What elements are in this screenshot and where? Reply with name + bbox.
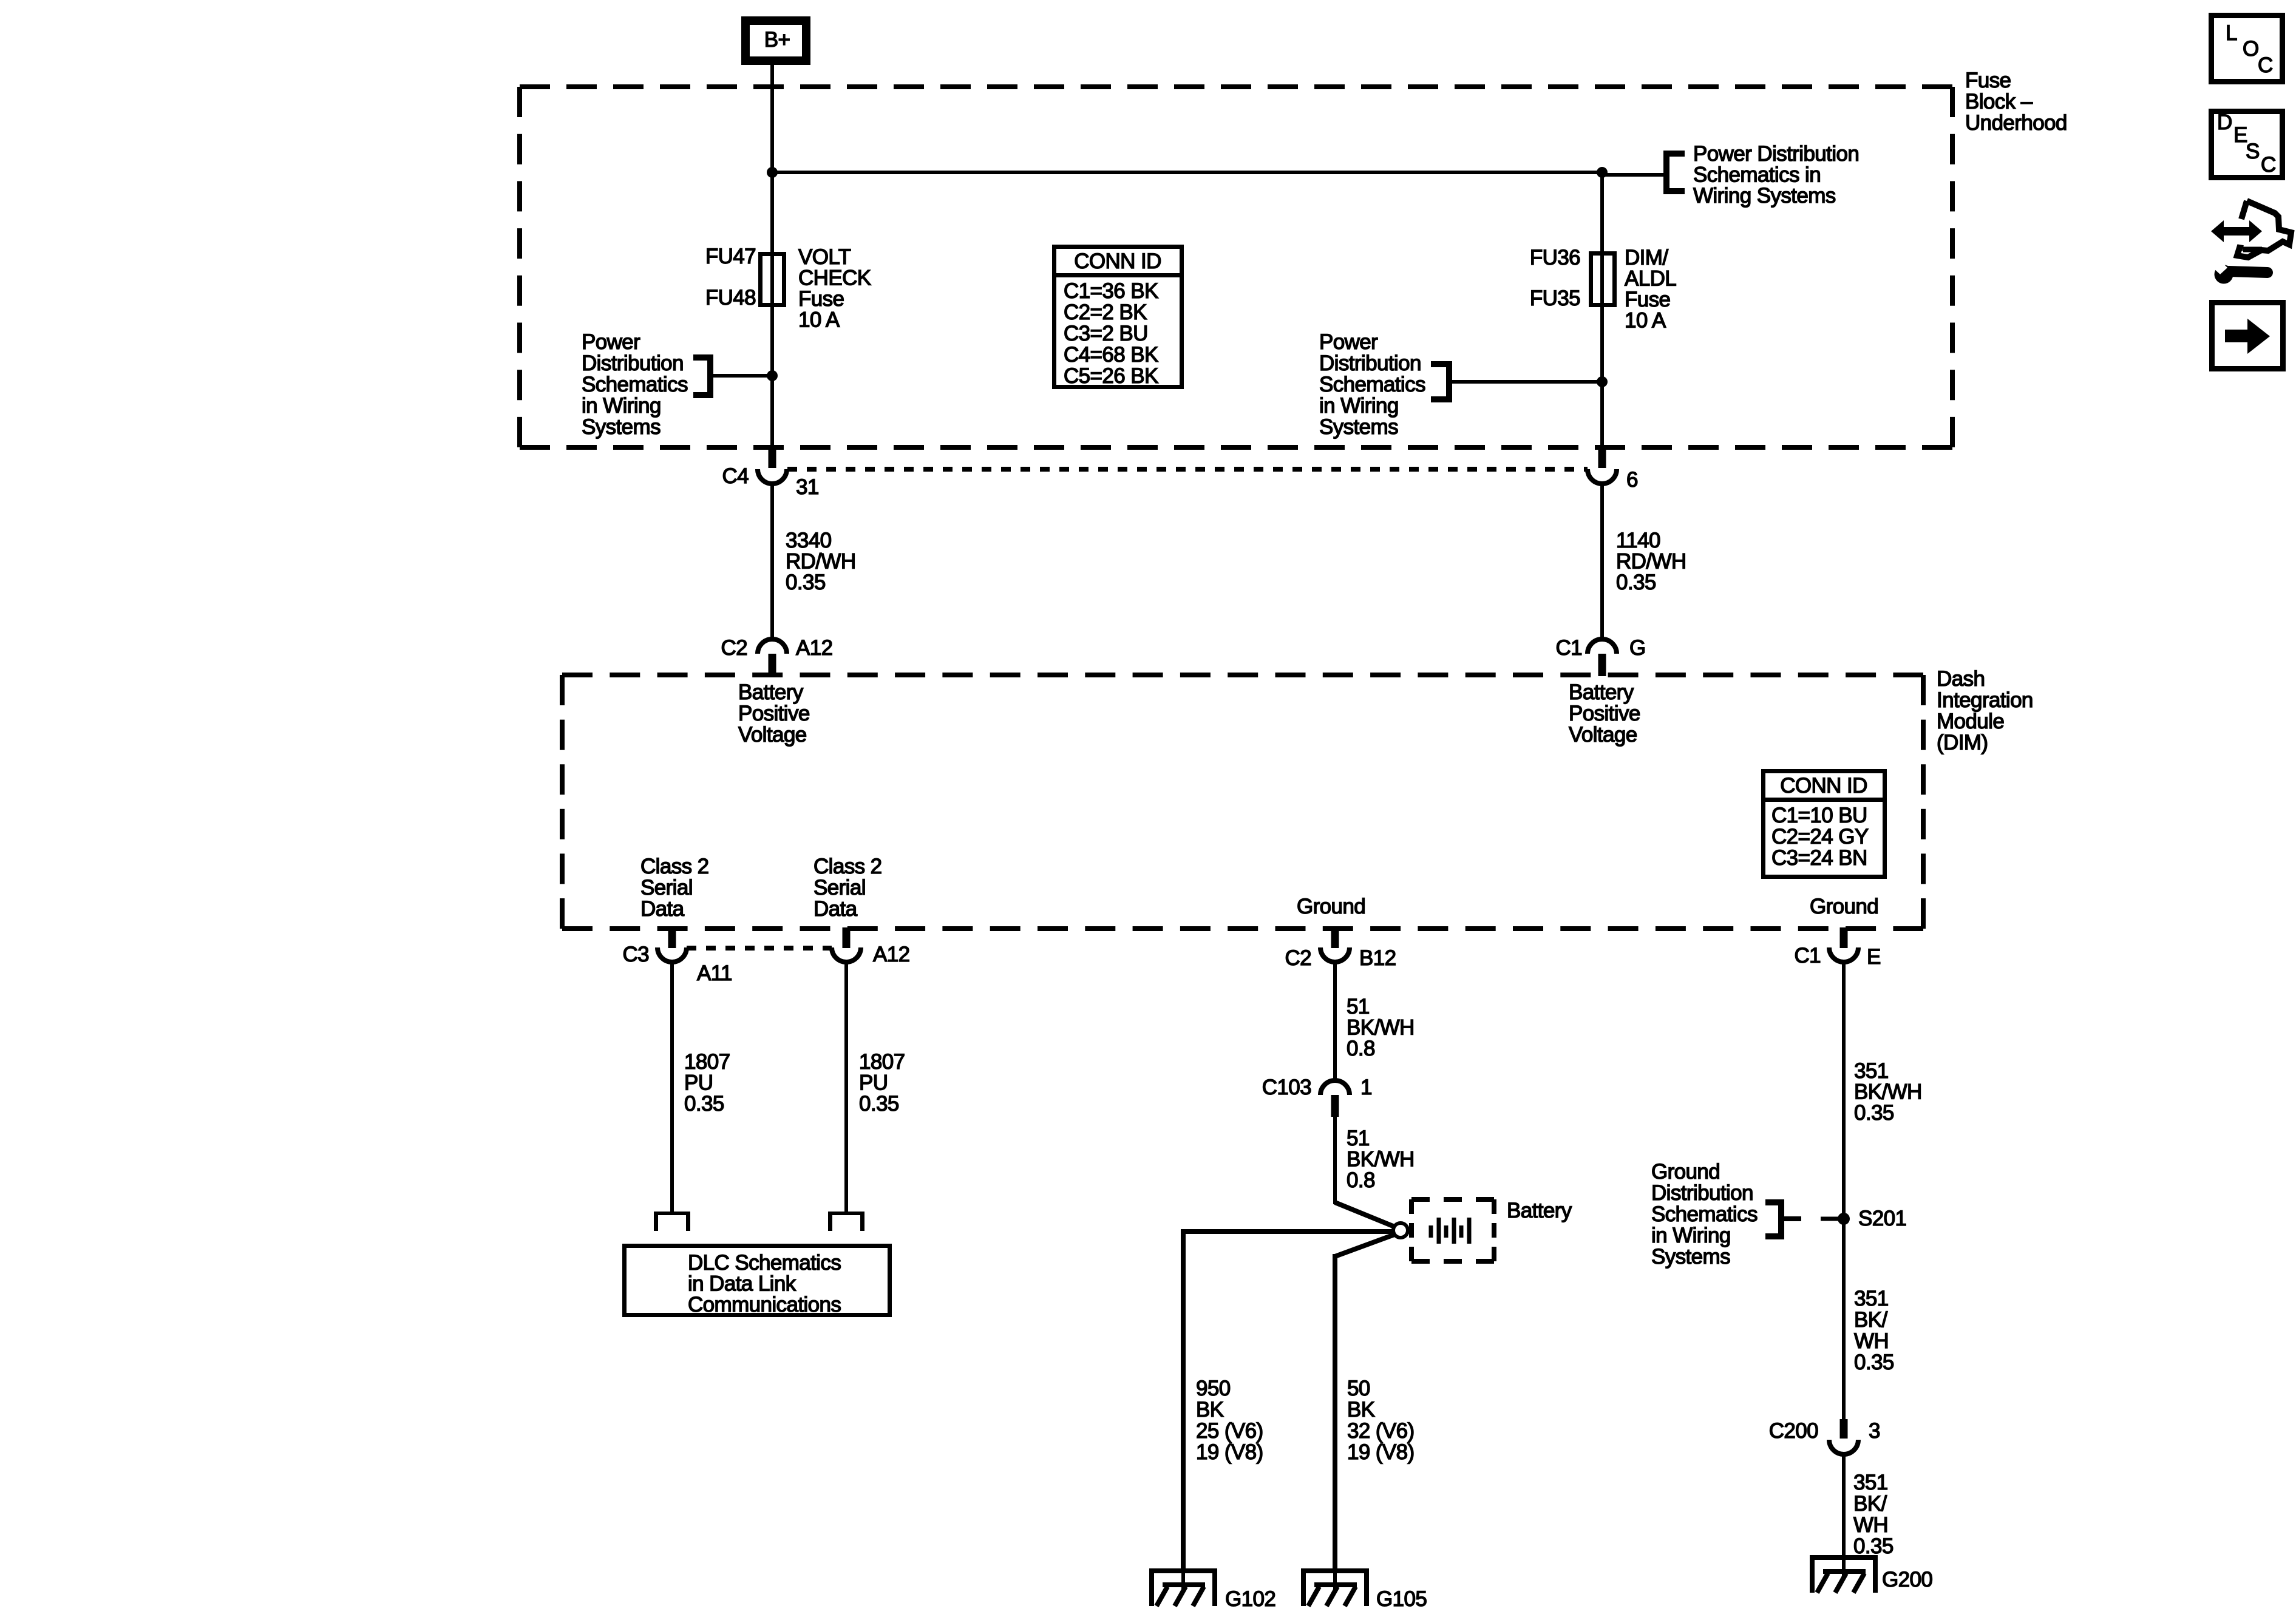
svg-text:0.35: 0.35	[1854, 1351, 1894, 1374]
svg-text:Battery: Battery	[1507, 1199, 1572, 1222]
svg-text:C3: C3	[622, 943, 649, 966]
svg-text:PU: PU	[684, 1071, 713, 1095]
svg-text:10 A: 10 A	[798, 308, 840, 332]
svg-text:1807: 1807	[859, 1050, 905, 1074]
svg-text:FU36: FU36	[1530, 246, 1580, 269]
svg-text:in Wiring: in Wiring	[582, 394, 661, 418]
svg-text:C1: C1	[1555, 636, 1582, 660]
svg-text:Systems: Systems	[1651, 1245, 1730, 1269]
svg-text:51: 51	[1347, 995, 1370, 1018]
svg-text:BK/: BK/	[1853, 1492, 1887, 1516]
svg-text:C: C	[2261, 153, 2276, 177]
svg-text:Power: Power	[582, 330, 640, 354]
svg-text:Power: Power	[1319, 330, 1378, 354]
svg-text:Ground: Ground	[1810, 895, 1878, 918]
svg-text:Integration: Integration	[1937, 688, 2033, 712]
svg-text:C: C	[2258, 53, 2273, 77]
svg-text:CONN ID: CONN ID	[1780, 774, 1867, 798]
svg-text:CONN ID: CONN ID	[1074, 249, 1161, 273]
svg-text:B12: B12	[1359, 946, 1396, 970]
svg-text:D: D	[2217, 110, 2232, 134]
svg-text:A12: A12	[873, 943, 909, 966]
svg-text:Positive: Positive	[1569, 702, 1640, 725]
svg-text:RD/WH: RD/WH	[1616, 550, 1686, 574]
svg-text:1: 1	[1360, 1076, 1372, 1099]
svg-text:3340: 3340	[786, 529, 832, 552]
svg-text:Class 2: Class 2	[813, 855, 882, 878]
svg-text:Ground: Ground	[1651, 1160, 1720, 1184]
svg-text:0.35: 0.35	[786, 571, 826, 594]
svg-text:FU47: FU47	[705, 245, 756, 268]
svg-text:C4: C4	[722, 464, 749, 488]
svg-text:Schematics: Schematics	[1651, 1202, 1758, 1226]
svg-text:CHECK: CHECK	[798, 266, 871, 290]
svg-text:C2=2 BK: C2=2 BK	[1064, 300, 1147, 324]
svg-text:BK: BK	[1196, 1398, 1224, 1422]
svg-text:C1=10 BU: C1=10 BU	[1771, 804, 1867, 827]
svg-text:Underhood: Underhood	[1965, 111, 2067, 135]
svg-text:BK: BK	[1347, 1398, 1375, 1422]
svg-text:Block –: Block –	[1965, 90, 2033, 114]
svg-text:C3=24 BN: C3=24 BN	[1771, 846, 1867, 870]
svg-text:Serial: Serial	[640, 876, 693, 900]
svg-text:C4=68 BK: C4=68 BK	[1064, 343, 1158, 367]
svg-text:31: 31	[796, 475, 819, 499]
svg-text:6: 6	[1626, 468, 1638, 492]
svg-text:E: E	[1867, 945, 1881, 969]
svg-text:BK/WH: BK/WH	[1347, 1016, 1415, 1040]
svg-text:32 (V6): 32 (V6)	[1347, 1419, 1415, 1443]
svg-text:25 (V6): 25 (V6)	[1196, 1419, 1263, 1443]
svg-text:50: 50	[1347, 1377, 1370, 1400]
svg-text:RD/WH: RD/WH	[786, 550, 856, 574]
svg-text:A12: A12	[796, 636, 832, 660]
svg-text:in Data Link: in Data Link	[688, 1272, 796, 1296]
svg-text:C1=36 BK: C1=36 BK	[1064, 279, 1158, 303]
svg-text:DIM/: DIM/	[1625, 246, 1668, 269]
svg-text:S201: S201	[1858, 1207, 1906, 1230]
svg-text:(DIM): (DIM)	[1937, 731, 1988, 754]
svg-text:19 (V8): 19 (V8)	[1347, 1440, 1415, 1464]
svg-text:Schematics: Schematics	[1319, 373, 1425, 396]
svg-text:FU48: FU48	[705, 286, 756, 310]
svg-text:G200: G200	[1882, 1568, 1932, 1591]
svg-text:Schematics in: Schematics in	[1693, 163, 1821, 187]
svg-text:G102: G102	[1225, 1587, 1275, 1611]
svg-text:C3=2 BU: C3=2 BU	[1064, 322, 1148, 345]
svg-text:A11: A11	[697, 961, 732, 985]
svg-text:Battery: Battery	[738, 680, 804, 704]
svg-text:Ground: Ground	[1297, 895, 1365, 918]
svg-text:BK/: BK/	[1854, 1308, 1887, 1332]
svg-text:Communications: Communications	[688, 1293, 841, 1317]
svg-text:0.35: 0.35	[1853, 1534, 1894, 1558]
svg-text:BK/WH: BK/WH	[1854, 1080, 1922, 1104]
svg-text:C2: C2	[721, 636, 747, 660]
svg-text:DLC Schematics: DLC Schematics	[688, 1251, 841, 1275]
svg-text:Systems: Systems	[582, 415, 661, 439]
svg-text:C1: C1	[1794, 944, 1821, 968]
svg-text:0.35: 0.35	[1616, 571, 1656, 594]
svg-text:10 A: 10 A	[1625, 309, 1666, 333]
svg-text:Fuse: Fuse	[1965, 69, 2011, 92]
svg-text:C103: C103	[1262, 1076, 1311, 1099]
svg-text:351: 351	[1853, 1471, 1888, 1494]
svg-text:1140: 1140	[1616, 529, 1660, 552]
svg-text:WH: WH	[1853, 1513, 1888, 1537]
svg-text:Battery: Battery	[1569, 680, 1634, 704]
svg-text:Distribution: Distribution	[582, 351, 684, 375]
svg-text:Dash: Dash	[1937, 667, 1985, 691]
svg-text:0.35: 0.35	[684, 1092, 724, 1116]
svg-text:0.35: 0.35	[859, 1092, 899, 1116]
svg-text:Power Distribution: Power Distribution	[1693, 142, 1859, 166]
svg-text:Wiring Systems: Wiring Systems	[1693, 184, 1836, 208]
svg-text:Distribution: Distribution	[1319, 351, 1421, 375]
svg-text:FU35: FU35	[1530, 286, 1580, 310]
svg-text:Module: Module	[1937, 710, 2004, 733]
svg-text:C5=26 BK: C5=26 BK	[1064, 364, 1158, 388]
svg-text:3: 3	[1869, 1419, 1880, 1443]
svg-text:VOLT: VOLT	[798, 245, 851, 269]
svg-text:B+: B+	[764, 28, 790, 52]
svg-text:in Wiring: in Wiring	[1651, 1224, 1731, 1247]
svg-text:Serial: Serial	[813, 876, 866, 900]
svg-text:G105: G105	[1376, 1587, 1427, 1611]
svg-text:WH: WH	[1854, 1329, 1889, 1353]
svg-text:PU: PU	[859, 1071, 888, 1095]
svg-text:950: 950	[1196, 1377, 1231, 1400]
svg-text:Class 2: Class 2	[640, 855, 709, 878]
svg-text:ALDL: ALDL	[1625, 267, 1676, 291]
svg-text:Systems: Systems	[1319, 415, 1398, 439]
svg-text:Distribution: Distribution	[1651, 1181, 1753, 1205]
svg-text:O: O	[2243, 37, 2259, 61]
svg-text:C2=24 GY: C2=24 GY	[1771, 825, 1869, 849]
svg-text:Data: Data	[640, 897, 685, 921]
svg-text:S: S	[2246, 140, 2260, 163]
svg-text:351: 351	[1854, 1059, 1889, 1083]
svg-text:C2: C2	[1285, 946, 1311, 970]
svg-text:Positive: Positive	[738, 702, 810, 725]
svg-text:L: L	[2226, 21, 2237, 45]
svg-text:Fuse: Fuse	[798, 287, 844, 311]
svg-text:51: 51	[1347, 1127, 1370, 1150]
svg-text:Schematics: Schematics	[582, 373, 688, 396]
svg-text:Voltage: Voltage	[738, 723, 807, 747]
svg-text:19 (V8): 19 (V8)	[1196, 1440, 1263, 1464]
svg-text:0.8: 0.8	[1347, 1037, 1375, 1060]
svg-text:G: G	[1629, 636, 1646, 660]
svg-text:in Wiring: in Wiring	[1319, 394, 1399, 418]
svg-text:Voltage: Voltage	[1569, 723, 1637, 747]
svg-text:351: 351	[1854, 1287, 1889, 1310]
svg-text:Fuse: Fuse	[1625, 288, 1670, 311]
svg-text:1807: 1807	[684, 1050, 730, 1074]
svg-text:Data: Data	[813, 897, 858, 921]
svg-text:BK/WH: BK/WH	[1347, 1148, 1415, 1171]
svg-text:C200: C200	[1769, 1419, 1818, 1443]
svg-text:0.35: 0.35	[1854, 1101, 1894, 1125]
svg-text:0.8: 0.8	[1347, 1168, 1375, 1192]
